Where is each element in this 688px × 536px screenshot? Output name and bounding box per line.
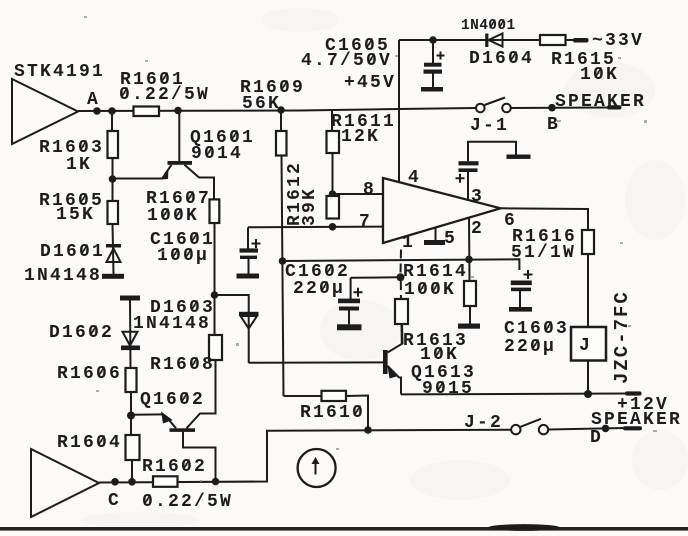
svg-text:D1601: D1601 [40,242,105,262]
svg-text:D1602: D1602 [49,323,114,343]
svg-text:1: 1 [402,233,415,253]
svg-text:100µ: 100µ [157,246,209,266]
svg-text:0.22/5W: 0.22/5W [142,492,233,512]
svg-text:J-2: J-2 [464,413,503,433]
svg-text:R1602: R1602 [142,457,207,477]
svg-text:100K: 100K [404,280,456,300]
svg-text:0.22/5W: 0.22/5W [119,85,210,105]
svg-text:R1614: R1614 [403,262,468,282]
svg-text:R1606: R1606 [57,364,122,384]
svg-text:5: 5 [444,229,457,249]
svg-text:JZC-7FC: JZC-7FC [611,290,633,384]
svg-text:B: B [547,115,560,135]
svg-text:C: C [108,491,121,511]
svg-text:1N4148: 1N4148 [133,314,211,334]
svg-text:2: 2 [471,219,484,239]
svg-text:51/1W: 51/1W [511,243,576,263]
svg-text:Q1602: Q1602 [140,390,205,410]
svg-text:56K: 56K [242,94,281,114]
svg-text:7: 7 [359,212,372,232]
svg-text:9015: 9015 [422,379,474,399]
svg-text:1K: 1K [66,155,92,175]
svg-text:+45V: +45V [344,73,396,93]
svg-text:10K: 10K [420,345,459,365]
svg-text:100K: 100K [147,206,199,226]
svg-text:12K: 12K [341,127,380,147]
svg-text:1N4001: 1N4001 [461,18,516,34]
svg-text:~33V: ~33V [592,31,644,51]
svg-text:R1604: R1604 [57,433,122,453]
svg-text:C1603: C1603 [504,319,569,339]
svg-text:8: 8 [363,180,376,200]
svg-text:J: J [579,336,592,356]
svg-text:10K: 10K [580,65,619,85]
svg-text:STK4191: STK4191 [14,62,105,82]
svg-text:J-1: J-1 [470,116,509,136]
svg-text:220µ: 220µ [504,337,556,357]
svg-text:SPEAKER: SPEAKER [555,92,646,112]
svg-text:3: 3 [471,187,484,207]
svg-text:220µ: 220µ [293,279,345,299]
svg-text:R1608: R1608 [150,355,215,375]
svg-text:9014: 9014 [191,144,243,164]
svg-text:A: A [87,90,100,110]
svg-text:4: 4 [408,168,421,188]
svg-text:SPEAKER: SPEAKER [591,410,682,430]
svg-text:15K: 15K [56,205,95,225]
svg-text:1N4148: 1N4148 [24,266,102,286]
svg-text:D: D [590,428,603,448]
svg-text:4.7/50V: 4.7/50V [301,51,392,71]
svg-text:D1604: D1604 [469,49,534,69]
svg-text:39K: 39K [300,187,320,226]
